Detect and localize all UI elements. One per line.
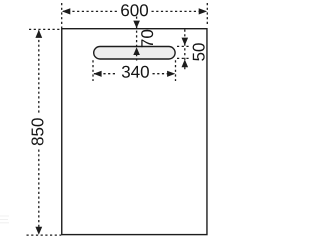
dim 600: left arrow: [62, 8, 70, 14]
dim 340: right arrow: [167, 71, 175, 77]
dim 70: dimension line: [136, 17, 138, 61]
dim 850: extension line top: [29, 28, 61, 30]
dim 50: top arrow (points down to slot top): [182, 38, 189, 46]
dim 600: extension line left: [61, 3, 63, 28]
dim 340: extension line left: [92, 60, 94, 81]
dim 850: bottom arrow: [35, 227, 42, 235]
dim 600: label: [121, 4, 148, 16]
dim 70: top arrow (points down to panel top edge): [133, 21, 140, 29]
dim 50: extension line top: [177, 45, 191, 47]
dim 340: label: [122, 66, 149, 78]
dim 340: extension line right: [175, 60, 177, 81]
dim 70: label: [141, 30, 153, 47]
panel outline: [62, 29, 207, 235]
dim 50: extension line bottom: [177, 57, 191, 59]
dim 850: label: [31, 118, 43, 145]
dim 600: extension line right: [206, 3, 208, 26]
dim 50: dimension line: [184, 30, 186, 72]
dim 50: bottom arrow (points up to slot bottom): [182, 59, 189, 67]
dim 70: bottom arrow (points up to slot top edge): [133, 47, 140, 55]
dim 600: dimension line: [63, 10, 206, 12]
dim 850: top arrow: [35, 30, 42, 38]
dim 850: dimension line: [38, 31, 40, 234]
dim 50: label: [193, 43, 205, 61]
slot (handle cutout): [94, 47, 175, 60]
dim 340: left arrow: [93, 71, 101, 77]
dim 600: right arrow: [199, 8, 207, 14]
dim 340: dimension line: [94, 73, 175, 75]
dim 850: extension line bottom: [27, 234, 62, 236]
faint margin marks bottom-left: [0, 216, 9, 217]
